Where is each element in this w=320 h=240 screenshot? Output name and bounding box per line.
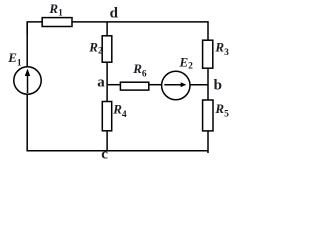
source E2 — [162, 71, 190, 99]
wire left below E1 to bottom corner — [27, 94, 107, 151]
wire node a to R6 — [107, 84, 120, 86]
wire top-left from corner to R1 — [27, 22, 42, 35]
wire node d down to R2 — [106, 22, 108, 36]
resistor R2 — [102, 36, 112, 62]
resistor R4 — [102, 102, 111, 131]
wire R4 to node c — [106, 131, 108, 151]
wire R6 to E2 — [149, 84, 162, 86]
wire bottom right — [107, 150, 208, 152]
resistor R1 — [42, 18, 72, 27]
E2 arrow head — [181, 82, 187, 87]
svg-text:a: a — [97, 75, 105, 91]
E2 arrow shaft — [164, 84, 181, 86]
svg-text:d: d — [110, 5, 119, 21]
resistor R5 — [203, 100, 213, 131]
wire left above E1 — [26, 22, 28, 67]
wire top from R1 to top-right corner — [72, 22, 208, 40]
resistor R3 — [203, 40, 213, 68]
source E1 — [14, 67, 41, 94]
wire R2 to node a to R4 — [106, 62, 108, 101]
wire right between R3 and R5 — [207, 68, 209, 100]
wire right lower segment — [207, 131, 209, 153]
wire E2 to node b — [190, 84, 208, 86]
E1 arrow shaft — [27, 71, 29, 94]
E1 arrow head — [25, 69, 30, 76]
resistor R6 — [120, 82, 148, 90]
svg-text:c: c — [101, 146, 108, 162]
svg-text:b: b — [214, 78, 222, 94]
